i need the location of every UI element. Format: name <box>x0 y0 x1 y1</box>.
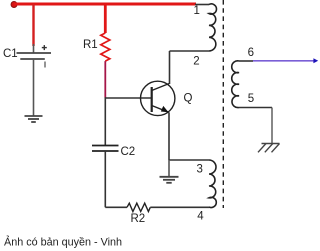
capacitor C2 <box>92 146 119 152</box>
wire R1 bottom lead (crimson) <box>104 61 106 98</box>
wire emitter vertical <box>168 112 170 160</box>
svg-text:C2: C2 <box>121 146 136 158</box>
wire top red rail <box>14 3 196 6</box>
transistor Q <box>141 81 175 115</box>
wire R2 to winding 4 <box>150 206 209 208</box>
wire collector vertical <box>169 51 171 84</box>
ground (emitter) <box>160 177 179 183</box>
wire collector horizontal to winding 2 <box>170 50 210 52</box>
wire base horizontal <box>105 97 151 99</box>
inductor primary winding 3-4 <box>209 160 216 208</box>
inductor primary winding 1-2 <box>209 4 217 51</box>
wire bottom left to R2 <box>105 206 127 208</box>
transformer core dashed line <box>222 0 224 208</box>
ground (C1) <box>25 116 43 122</box>
svg-text:R1: R1 <box>83 39 98 51</box>
wire C2 bottom lead <box>104 151 106 207</box>
resistor R2 <box>127 203 150 211</box>
wire emitter to winding 3 <box>169 159 209 161</box>
node VCC red dot terminal <box>11 2 17 8</box>
chassis ground (secondary) <box>258 144 280 153</box>
svg-text:4: 4 <box>197 210 204 222</box>
inductor secondary winding 5-6 <box>232 61 239 108</box>
svg-text:Ảnh có bản quyền - Vinh: Ảnh có bản quyền - Vinh <box>4 236 122 249</box>
svg-text:R2: R2 <box>131 213 146 225</box>
svg-text:5: 5 <box>248 93 254 105</box>
wire C1 top lead (red) <box>32 4 34 46</box>
capacitor C1 <box>17 45 52 67</box>
wire base junction to C2 <box>104 97 106 145</box>
svg-text:3: 3 <box>197 164 203 176</box>
wire C1 lead gray <box>33 44 35 53</box>
arrowhead output <box>313 58 318 63</box>
wire output arrow (purple) <box>253 60 314 62</box>
wire C1 bottom lead <box>33 59 35 116</box>
wire winding 5 bottom horizontal <box>239 107 272 109</box>
resistor R1 <box>101 33 110 61</box>
svg-text:Q: Q <box>184 93 193 105</box>
wire top rail black segment to winding 1 <box>195 4 209 6</box>
svg-text:C1: C1 <box>3 48 18 60</box>
svg-text:1: 1 <box>194 5 200 17</box>
wire secondary ground vertical <box>271 108 273 144</box>
wire winding 6 black stub <box>239 60 253 62</box>
wire ground stub <box>168 160 170 177</box>
svg-text:2: 2 <box>193 56 199 68</box>
svg-text:6: 6 <box>248 47 254 59</box>
wire R1 top lead (red) <box>104 4 107 33</box>
